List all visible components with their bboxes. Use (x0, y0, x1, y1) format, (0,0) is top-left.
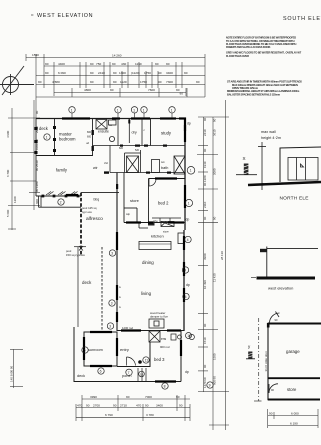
living east wall (183, 230, 185, 331)
svg-text:3900: 3900 (203, 253, 207, 260)
left dimension column (8, 100, 40, 230)
svg-text:1: 1 (190, 169, 192, 173)
svg-text:deck: deck (77, 374, 85, 378)
GARAGE / STORE plan (246, 312, 321, 429)
kitchen top wall strips (126, 221, 184, 223)
store top wall (268, 377, 320, 379)
svg-text:90: 90 (110, 88, 114, 92)
ground line thick (248, 182, 321, 185)
svg-text:6 000: 6 000 (291, 412, 299, 416)
svg-text:90: 90 (203, 216, 207, 220)
svg-text:90: 90 (90, 80, 94, 84)
svg-text:90: 90 (176, 88, 180, 92)
svg-text:820: 820 (119, 147, 124, 150)
svg-text:wip: wip (126, 212, 130, 216)
svg-text:7: 7 (128, 371, 130, 375)
svg-text:470: 470 (77, 403, 82, 407)
svg-text:wc: wc (109, 124, 113, 127)
store / bed2 block (124, 173, 185, 223)
store door arc (269, 384, 278, 393)
svg-text:ens: ens (161, 337, 167, 341)
svg-text:1750: 1750 (140, 80, 147, 84)
svg-text:1590: 1590 (32, 53, 39, 57)
svg-text:90: 90 (90, 62, 94, 66)
svg-text:1510: 1510 (203, 337, 207, 344)
bed3 window strip bottom (155, 340, 181, 382)
svg-text:2410: 2410 (203, 129, 207, 136)
svg-text:bbq: bbq (94, 198, 100, 202)
svg-text:90: 90 (45, 62, 49, 66)
svg-text:2410: 2410 (98, 71, 105, 75)
svg-text:520: 520 (135, 149, 140, 152)
svg-text:90: 90 (269, 412, 273, 416)
svg-text:6 790: 6 790 (105, 413, 113, 417)
svg-text:600: 600 (87, 136, 92, 139)
svg-text:1160: 1160 (135, 62, 142, 66)
hatched post X (244, 164, 249, 175)
right dimension labels (rotated) (203, 117, 224, 388)
svg-text:bed 3: bed 3 (154, 357, 165, 362)
svg-text:90: 90 (113, 403, 117, 407)
svg-text:90: 90 (158, 80, 162, 84)
svg-text:max wall: max wall (261, 130, 276, 134)
svg-text:1949: 1949 (203, 161, 207, 168)
svg-text:BALUSTER SPACING BETWEEN RAILS: BALUSTER SPACING BETWEEN RAILS 125mm (227, 92, 281, 96)
alfresco (80, 193, 82, 256)
svg-text:90: 90 (203, 364, 207, 368)
svg-text:chd: chd (104, 162, 109, 165)
svg-text:90: 90 (113, 80, 117, 84)
svg-text:14 260: 14 260 (112, 54, 122, 58)
bottom dimension rows (76, 395, 190, 421)
svg-text:FLOOR TILES OVER: FLOOR TILES OVER (226, 54, 249, 58)
svg-text:bath: bath (161, 166, 168, 170)
svg-text:1: 1 (133, 108, 135, 112)
svg-text:1200: 1200 (13, 196, 17, 203)
living west wall (116, 173, 118, 332)
svg-text:7000: 7000 (145, 395, 152, 399)
sunroom window strips (84, 332, 117, 366)
svg-text:garage: garage (286, 349, 300, 354)
svg-text:90: 90 (213, 118, 217, 122)
svg-text:6 090: 6 090 (58, 71, 66, 75)
svg-text:w: w (119, 286, 121, 289)
left lower dim (3600) (10, 349, 23, 388)
svg-text:4: 4 (185, 295, 187, 299)
deck top-left (36, 119, 55, 197)
svg-text:typr ess: typr ess (82, 210, 92, 214)
svg-text:5 690: 5 690 (6, 209, 10, 217)
garage top wall (268, 323, 321, 325)
svg-text:1: 1 (46, 136, 48, 140)
svg-text:6 190: 6 190 (290, 421, 298, 425)
svg-text:3 780: 3 780 (146, 413, 154, 417)
svg-text:dp: dp (185, 370, 189, 374)
svg-text:9: 9 (209, 384, 211, 388)
svg-text:140 3600 90: 140 3600 90 (10, 366, 14, 382)
family wall dark strip (66, 194, 78, 196)
svg-text:10 490: 10 490 (203, 280, 207, 289)
NORTH ELEVATION sketch (236, 130, 321, 202)
svg-text:(1120): (1120) (131, 71, 140, 75)
svg-text:deck: deck (39, 126, 49, 131)
dp labels (185, 122, 191, 375)
svg-text:31×6 roller door: 31×6 roller door (264, 351, 268, 371)
notes block 2 (227, 80, 302, 97)
top dimension labels (32, 53, 200, 96)
svg-text:7600: 7600 (148, 88, 155, 92)
marker circle 1 (deck) (44, 134, 50, 140)
svg-text:4400: 4400 (58, 62, 65, 66)
svg-text:90 1380: 90 1380 (203, 175, 207, 186)
svg-text:1470 90: 1470 90 (203, 377, 207, 388)
svg-text:w: w (119, 306, 121, 309)
svg-text:3: 3 (111, 251, 113, 255)
svg-text:dp: dp (186, 218, 190, 222)
svg-text:90: 90 (176, 395, 180, 399)
svg-text:2710: 2710 (120, 403, 127, 407)
bed2 window strip top (155, 177, 177, 179)
svg-text:90: 90 (180, 92, 184, 96)
svg-text:deck: deck (82, 280, 92, 285)
svg-text:1: 1 (117, 108, 119, 112)
ens hatch box bottom (149, 331, 160, 342)
svg-text:4 580: 4 580 (52, 80, 60, 84)
dim base line above plan (36, 96, 205, 98)
svg-text:90: 90 (179, 403, 183, 407)
svg-text:2700: 2700 (93, 403, 100, 407)
svg-text:90: 90 (45, 71, 49, 75)
svg-text:west elevation: west elevation (268, 286, 293, 291)
sunroom wing (74, 327, 181, 382)
svg-text:1300: 1300 (119, 71, 126, 75)
garage dims (268, 409, 318, 428)
title WEST ELEVATION (31, 13, 93, 19)
svg-text:90: 90 (184, 71, 188, 75)
porch steps (138, 368, 146, 381)
svg-text:3400: 3400 (166, 71, 173, 75)
top dimension mesh (26, 54, 205, 119)
svg-text:1: 1 (71, 108, 73, 112)
svg-text:90: 90 (158, 71, 162, 75)
svg-text:2110: 2110 (203, 201, 207, 208)
marker circles right wall (107, 167, 195, 339)
svg-text:90: 90 (112, 62, 116, 66)
svg-text:entry: entry (120, 347, 129, 352)
svg-text:1120: 1120 (120, 80, 127, 84)
svg-text:dining: dining (142, 260, 154, 265)
outer wall top (36, 118, 185, 120)
svg-text:store: store (130, 198, 140, 203)
svg-text:11: 11 (145, 359, 149, 363)
svg-text:90: 90 (126, 395, 130, 399)
svg-text:470: 470 (136, 403, 141, 407)
svg-text:family: family (56, 168, 68, 173)
svg-text:store: store (287, 387, 297, 392)
svg-text:3610: 3610 (213, 129, 217, 136)
garage west wall (267, 324, 269, 401)
svg-text:90: 90 (90, 71, 94, 75)
svg-text:3: 3 (111, 301, 113, 305)
living bottom wall (117, 330, 184, 332)
door blobs bath row (144, 145, 171, 174)
door blobs master (92, 130, 94, 151)
left dashed boundary line (258, 318, 260, 401)
deck posts (35, 126, 57, 154)
svg-text:y: y (248, 344, 251, 349)
svg-text:6: 6 (100, 370, 102, 374)
svg-text:90: 90 (86, 403, 90, 407)
svg-text:ROBERT AND SLATE A ACCESS DOOR: ROBERT AND SLATE A ACCESS DOOR. (226, 45, 271, 49)
svg-text:stove: stove (163, 231, 169, 234)
svg-text:3400: 3400 (156, 403, 163, 407)
svg-text:1500: 1500 (213, 353, 217, 360)
svg-text:4: 4 (187, 238, 189, 242)
entry door arc (127, 357, 136, 366)
svg-text:1750: 1750 (144, 71, 151, 75)
svg-text:10: 10 (187, 334, 191, 338)
svg-text:wm: wm (161, 161, 165, 164)
svg-text:90: 90 (155, 62, 159, 66)
alfresco top beam (81, 192, 119, 194)
svg-text:1: 1 (188, 201, 190, 205)
svg-text:2080: 2080 (213, 168, 217, 175)
robe row under bed2 (152, 218, 181, 223)
svg-text:NORTH ELE: NORTH ELE (280, 196, 309, 202)
svg-text:150 sq cypress: 150 sq cypress (66, 253, 85, 257)
svg-text:600 90: 600 90 (213, 376, 217, 385)
svg-text:750: 750 (96, 62, 101, 66)
svg-text:dp: dp (187, 122, 191, 126)
svg-text:wir: wir (93, 166, 98, 170)
svg-text:90: 90 (113, 71, 117, 75)
top marker circles (69, 107, 175, 113)
svg-text:height 4·2m: height 4·2m (261, 136, 281, 140)
svg-text:800: 800 (87, 131, 92, 134)
svg-text:16: 16 (140, 372, 144, 376)
svg-text:sunroom: sunroom (88, 348, 103, 352)
svg-text:dry: dry (132, 131, 137, 135)
datum circle A (0, 66, 34, 95)
store bottom wall (268, 399, 320, 401)
svg-text:living: living (141, 291, 152, 296)
svg-text:11 420: 11 420 (213, 273, 217, 282)
svg-text:90: 90 (213, 216, 217, 220)
markers bottom (82, 347, 88, 353)
family terrace band (39, 196, 82, 207)
svg-text:damper to flue: damper to flue (150, 315, 168, 319)
left dimension labels (rotated) (6, 110, 39, 217)
svg-text:8: 8 (164, 385, 166, 389)
svg-text:90: 90 (38, 80, 42, 84)
svg-text:WEST ELEVATION: WEST ELEVATION (37, 13, 93, 19)
svg-text:90: 90 (203, 117, 207, 121)
svg-text:1: 1 (143, 108, 145, 112)
deck left lower (74, 247, 86, 327)
svg-text:bedroom: bedroom (59, 137, 76, 142)
kitchen island (139, 242, 171, 250)
family window ticks (46, 192, 78, 196)
svg-text:90: 90 (196, 80, 200, 84)
svg-text:ud: ud (86, 141, 89, 145)
svg-text:SOUTH ELEV: SOUTH ELEV (283, 16, 321, 22)
svg-text:7300: 7300 (166, 80, 173, 84)
svg-text:90: 90 (166, 62, 170, 66)
svg-text:5: 5 (84, 349, 86, 353)
svg-text:X: X (243, 156, 246, 161)
svg-text:90: 90 (35, 110, 39, 114)
ensuite block (93, 119, 119, 146)
svg-text:90: 90 (203, 148, 207, 152)
vertical ticks of top mesh (25, 54, 27, 61)
svg-text:4 900: 4 900 (6, 130, 10, 138)
svg-text:28 130: 28 130 (220, 251, 224, 260)
svg-text:4800: 4800 (84, 88, 91, 92)
svg-text:6 700: 6 700 (6, 169, 10, 177)
svg-text:430: 430 (121, 62, 126, 66)
door swing arc (270, 313, 280, 323)
svg-text:90: 90 (275, 318, 278, 322)
bath row (110, 150, 185, 174)
notes block 1 (226, 36, 302, 58)
svg-text:90: 90 (271, 388, 274, 392)
wall posts (42, 195, 80, 198)
svg-text:kitchen: kitchen (151, 234, 164, 239)
window strips on top wall (62, 117, 176, 119)
svg-text:w: w (119, 296, 121, 299)
hall + dry closet (118, 119, 185, 146)
svg-text:90: 90 (145, 403, 149, 407)
house outline (280, 147, 321, 182)
svg-text:2: 2 (60, 201, 62, 205)
svg-text:1: 1 (171, 108, 173, 112)
svg-text:study: study (161, 131, 172, 136)
svg-text:alfresco: alfresco (86, 216, 103, 222)
svg-text:bed 2: bed 2 (158, 201, 169, 206)
east wall upper (184, 119, 186, 231)
svg-text:3: 3 (109, 324, 111, 328)
svg-text:dp: dp (186, 283, 190, 287)
small x mark (79, 246, 83, 251)
marker circle 2 (family window) (58, 199, 64, 205)
svg-text:4: 4 (184, 268, 186, 272)
svg-text:ensuite: ensuite (98, 130, 109, 134)
WEST ELEVATION sketch (251, 247, 318, 291)
door blobs hall (120, 120, 140, 147)
svg-text:3990: 3990 (90, 395, 97, 399)
svg-text:90: 90 (203, 323, 207, 327)
svg-text:c: c (144, 129, 146, 132)
right dimension column (197, 100, 229, 430)
svg-text:900 rod: 900 rod (160, 345, 170, 349)
